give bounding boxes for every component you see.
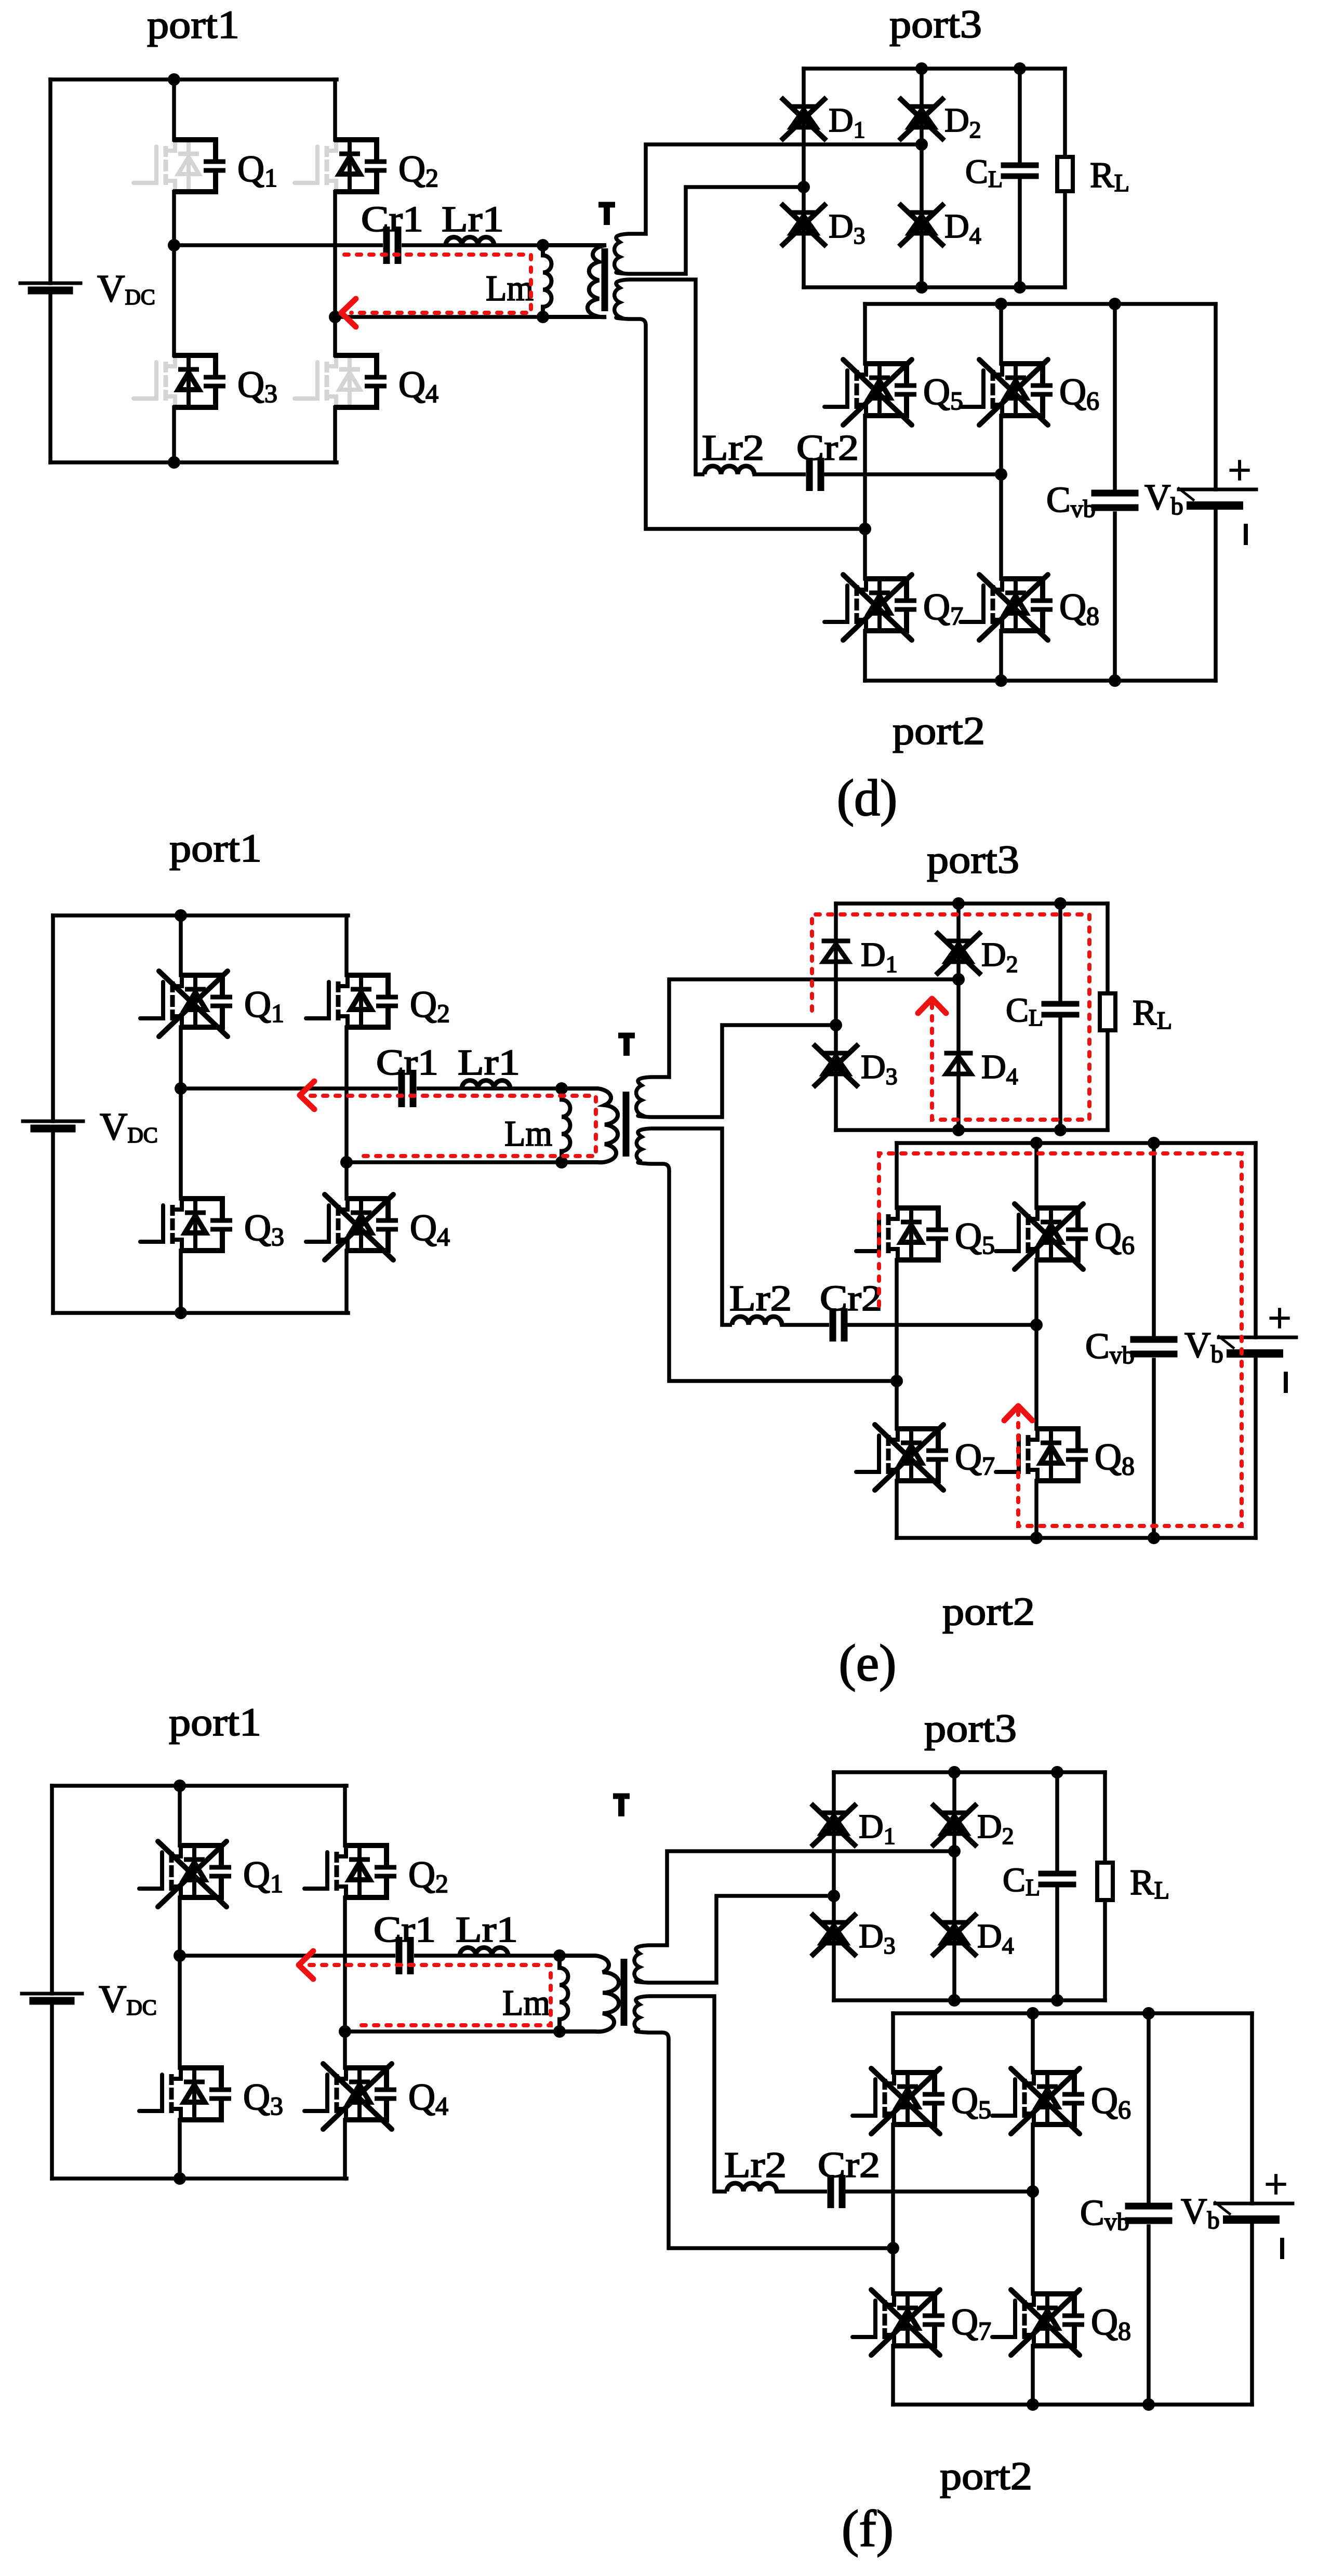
svg-text:Lm: Lm — [502, 1983, 550, 2023]
svg-text:Lr2: Lr2 — [724, 2145, 787, 2185]
svg-text:Cr2: Cr2 — [796, 428, 859, 468]
svg-text:Lr1: Lr1 — [458, 1043, 520, 1083]
svg-text:Lr2: Lr2 — [702, 428, 764, 468]
svg-text:+: + — [1268, 1296, 1291, 1342]
svg-text:port2: port2 — [940, 2454, 1032, 2498]
svg-text:+: + — [1264, 2162, 1287, 2208]
svg-text:(f): (f) — [842, 2500, 894, 2557]
svg-text:port2: port2 — [942, 1590, 1035, 1634]
svg-text:Cr2: Cr2 — [820, 1279, 882, 1319]
svg-text:port1: port1 — [169, 827, 262, 870]
svg-text:Lm: Lm — [486, 269, 534, 309]
svg-text:port3: port3 — [927, 838, 1019, 882]
svg-text:Lm: Lm — [504, 1114, 552, 1154]
svg-text:port1: port1 — [169, 1701, 261, 1744]
svg-text:Lr1: Lr1 — [456, 1910, 518, 1950]
svg-text:port1: port1 — [147, 3, 239, 47]
svg-text:Lr1: Lr1 — [442, 200, 504, 240]
svg-text:port3: port3 — [924, 1707, 1017, 1750]
svg-text:+: + — [1228, 448, 1251, 494]
svg-text:(e): (e) — [839, 1634, 897, 1692]
svg-text:Cr1: Cr1 — [376, 1043, 438, 1083]
svg-text:Cr1: Cr1 — [361, 200, 423, 240]
svg-text:(d): (d) — [837, 769, 898, 827]
svg-text:Cr2: Cr2 — [818, 2145, 880, 2185]
svg-text:port2: port2 — [893, 709, 985, 753]
svg-text:port3: port3 — [889, 3, 982, 46]
svg-text:Cr1: Cr1 — [374, 1910, 436, 1950]
svg-text:Lr2: Lr2 — [729, 1279, 792, 1319]
